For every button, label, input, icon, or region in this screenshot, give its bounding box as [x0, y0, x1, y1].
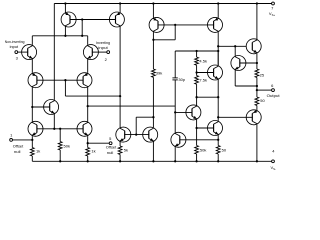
wire Q6 emitter down — [87, 136, 89, 147]
wire W drop down — [174, 25, 176, 40]
resistor R8 7.5k — [195, 76, 199, 85]
resistor R1 1k — [30, 148, 34, 157]
wire cap line top — [174, 51, 176, 78]
resistor R7 4.5k — [195, 57, 199, 65]
wire Q12 collector down to R5 — [152, 32, 154, 69]
junction V- rail x256.9 — [256, 160, 258, 162]
wire Q22 emitter to V- — [174, 147, 176, 161]
wire to Q17 base — [197, 127, 214, 129]
transistor Q17 (NPN gain) — [208, 121, 223, 136]
junction Q15 base sense — [256, 62, 258, 64]
wire Q16 emitter down — [196, 120, 198, 146]
junction Q10/Q11 base tie — [135, 133, 137, 135]
wire Q12 emitter to V+ — [152, 4, 154, 18]
junction node Y drop — [64, 79, 66, 81]
svg-text:7: 7 — [271, 5, 274, 10]
wire collector bus Q1-Q2 (node X) — [32, 35, 87, 37]
svg-text:30p: 30p — [178, 77, 185, 82]
svg-text:input: input — [98, 45, 108, 50]
wire Q14 emitter down — [256, 54, 258, 69]
junction N / Q16 base branch — [174, 111, 176, 113]
wire Q15 base to Q14 emitter — [239, 62, 257, 64]
resistor R11 25 — [255, 69, 259, 78]
wire Q8-Q9 base link — [70, 19, 116, 21]
wire Q17 emitter down — [217, 136, 219, 146]
junction output branch — [256, 89, 258, 91]
wire Q3 collector to Q5 collector (node M) — [31, 88, 33, 122]
junction pin1 on Q5 emitter — [31, 139, 33, 141]
junction node M Q7 base — [31, 106, 33, 108]
wire Q11 emitter to V- — [152, 141, 154, 161]
svg-text:VS-: VS- — [270, 165, 276, 171]
transistor Q5 (NPN mirror) — [28, 121, 43, 136]
junction V+ rail x120.1 — [119, 2, 121, 4]
junction V- rail x87.7 — [87, 160, 89, 162]
svg-text:2: 2 — [105, 57, 108, 62]
svg-text:50k: 50k — [200, 147, 206, 152]
wire V+ rail — [54, 3, 271, 5]
transistor Q4 (PNP) — [77, 73, 92, 88]
terminal pin 3 non-inverting input — [15, 51, 18, 54]
junction Q8 collector on bus — [64, 35, 66, 37]
wire Q13 collector down — [217, 32, 219, 65]
wire R3 bottom to V- — [59, 150, 61, 161]
terminal pin 5 offset null — [109, 142, 112, 145]
wire Q6 emitter to pin5 — [88, 142, 110, 144]
svg-text:1k: 1k — [91, 148, 95, 153]
junction W diode drop — [174, 24, 176, 26]
wire Q8 emitter to V+ — [64, 4, 66, 13]
wire W drop left to Q12 collector — [153, 39, 175, 41]
junction Q20 base branch — [217, 116, 219, 118]
resistor R4 5k — [118, 146, 122, 155]
transistor Q2 (NPN input) — [83, 45, 98, 60]
wire Q15 collector up to T — [234, 46, 236, 55]
transistor Q1 (NPN input) — [22, 45, 37, 60]
wire Q5-Q6 base link (node P) — [37, 128, 84, 130]
wire R5 bottom to Q11 collector — [152, 77, 154, 127]
junction U on Q18 emitter line — [217, 96, 219, 98]
svg-text:4.5k: 4.5k — [199, 59, 207, 64]
transistor Q20 (PNP output) — [246, 110, 261, 125]
wire base tie right to Q11 collector line — [136, 116, 153, 118]
transistor Q18 (VBE multiplier) — [208, 65, 223, 80]
wire Q22 base to Q17 emitter — [179, 139, 218, 141]
wire R11 bottom to output node — [256, 78, 258, 98]
svg-text:1k: 1k — [36, 148, 40, 153]
terminal pin 7 V+ — [272, 2, 275, 5]
capacitor C1 30p top plate — [172, 77, 177, 79]
wire R9 bottom — [196, 154, 198, 161]
wire Q1 collector up — [31, 36, 33, 45]
transistor Q15 (NPN current limit) — [231, 56, 246, 71]
svg-text:50: 50 — [260, 98, 265, 103]
svg-text:50: 50 — [222, 147, 227, 152]
junction base-tie on bus — [81, 35, 83, 37]
wire Q13 emitter to V+ — [217, 4, 219, 18]
junction Q16 emitter / Q17 base — [195, 127, 197, 129]
resistor R12 50 — [255, 97, 259, 106]
wire Q20 collector to V- — [256, 125, 258, 162]
transistor Q9 (PNP current mirror) — [109, 12, 124, 27]
resistor R3 50k — [58, 142, 62, 151]
junction V- rail x60.2 — [59, 160, 61, 162]
wire Q14 collector to V+ — [256, 4, 258, 40]
junction V- rail x120.1 — [119, 160, 121, 162]
wire Q12-Q13 base link (node W) — [158, 24, 214, 26]
svg-text:6: 6 — [271, 83, 274, 88]
junction node T on Q13 line — [217, 45, 219, 47]
resistor R10 50 — [216, 146, 220, 155]
svg-text:Output: Output — [267, 93, 281, 98]
junction Q17 emitter / Q22 base / R10 — [217, 139, 219, 141]
svg-text:4: 4 — [272, 149, 275, 154]
terminal pin 4 V- — [272, 160, 275, 163]
junction V+ rail x153.4 — [152, 2, 154, 4]
transistor Q7 (NPN mirror helper) — [44, 100, 59, 115]
wire node T right segment — [218, 45, 246, 47]
junction Q12 diode tie — [152, 39, 154, 41]
svg-text:VS+: VS+ — [269, 11, 276, 17]
wire Q10 emitter to R4 — [119, 141, 121, 146]
svg-text:3: 3 — [16, 56, 19, 61]
wire cap line bottom (node N) — [174, 80, 176, 132]
junction T / Q15 collector — [234, 45, 236, 47]
wire Q5 emitter down — [31, 136, 33, 147]
wire node Y down — [64, 80, 66, 96]
terminal pin 2 inverting input — [107, 51, 110, 54]
junction Q18 base tap — [195, 71, 197, 73]
wire U to Q20 base — [218, 116, 253, 118]
junction V- rail x175.2 — [174, 160, 176, 162]
wire Q7 emitter down to base rail P — [53, 115, 55, 129]
svg-text:null: null — [14, 149, 21, 154]
transistor Q22 (NPN clamp) — [171, 132, 186, 147]
junction V+ rail x65.4 — [64, 2, 66, 4]
wire Q18 collector up to T — [217, 51, 219, 65]
wire R7 to R8 — [196, 65, 198, 75]
junction Q8/Q9 base tie — [81, 18, 83, 20]
transistor Q12 (PNP diode mirror) — [149, 17, 164, 32]
junction V- rail x153.4 — [152, 160, 154, 162]
wire output branch — [257, 89, 272, 91]
wire R2 bottom — [87, 156, 89, 161]
wire node Y right to Q9 collector line — [65, 95, 120, 97]
wire Q7 base lead — [32, 106, 50, 108]
wire Q2 emitter to Q4 emitter — [87, 60, 89, 73]
terminal pin 6 output — [272, 89, 275, 92]
wire N to Q16 base — [175, 111, 192, 113]
svg-text:1: 1 — [10, 133, 13, 138]
wire node T left segment — [175, 50, 218, 52]
resistor R9 50k — [195, 146, 199, 155]
junction node T2 on Q13 line — [217, 50, 219, 52]
junction R3 top on P — [59, 128, 61, 130]
junction Z on Q11 collector line — [152, 116, 154, 118]
wire pin1 to Q5 emitter — [13, 139, 33, 141]
svg-text:39k: 39k — [156, 71, 162, 76]
wire Q9 collector down to Q10 — [119, 27, 121, 127]
wire base tie up — [135, 117, 137, 134]
wire R12 to Q20 emitter — [256, 106, 258, 110]
wire Q3-Q4 base link (node Y) — [37, 79, 84, 81]
wire V- rail — [32, 160, 271, 162]
wire tap to Q18 base — [197, 72, 214, 74]
junction Y / Q9 collector / Q10 collector — [119, 95, 121, 97]
junction V+ rail x256.9 — [256, 2, 258, 4]
junction V- rail x218.2 — [217, 160, 219, 162]
wire node N to capacitor line — [88, 105, 176, 107]
svg-text:null: null — [107, 150, 114, 155]
wire R3 top — [59, 129, 61, 142]
junction T / R7 chain top — [195, 50, 197, 52]
transistor Q10 (NPN Widlar) — [116, 127, 131, 142]
wire base tie down to collector bus — [81, 20, 83, 36]
junction pin5 on Q6 emitter — [87, 142, 89, 144]
transistor Q8 (PNP current mirror) — [61, 12, 76, 27]
transistor Q13 (PNP mirror) — [208, 17, 223, 32]
transistor Q14 (NPN output) — [246, 39, 261, 54]
wire pin3 to Q1 base — [18, 51, 28, 53]
transistor Q3 (PNP) — [28, 73, 43, 88]
wire R10 bottom — [217, 154, 219, 161]
wire Q2 collector up — [87, 36, 89, 45]
wire Q15 emitter to output node — [235, 85, 257, 87]
capacitor C1 30p bottom plate — [172, 79, 177, 81]
svg-text:input: input — [10, 44, 19, 49]
svg-text:Offset: Offset — [106, 145, 117, 150]
wire R1 bottom corner — [31, 156, 33, 161]
junction U on chain — [195, 96, 197, 98]
junction V- rail x196.6 — [195, 160, 197, 162]
resistor R2 1k — [86, 148, 90, 157]
svg-text:7.5k: 7.5k — [199, 78, 207, 83]
transistor Q11 (NPN diode) — [143, 127, 158, 142]
wire R4 bottom — [119, 155, 121, 162]
wire pin2 to Q2 base — [92, 51, 107, 53]
wire Q1 emitter to Q3 emitter — [31, 60, 33, 73]
wire Q15 emitter down — [234, 71, 236, 87]
svg-text:5: 5 — [109, 136, 112, 141]
transistor Q16 (NPN driver) — [186, 105, 201, 120]
svg-text:25: 25 — [260, 72, 265, 77]
wire U branch right — [197, 96, 219, 98]
transistor Q6 (NPN mirror) — [77, 121, 92, 136]
terminal pin 1 offset null — [10, 139, 13, 142]
wire Q4 collector to Q6 collector (node N top) — [87, 88, 89, 122]
wire Q10-Q11 base link — [124, 134, 149, 136]
wire Q9 emitter to V+ — [119, 4, 121, 13]
svg-text:50k: 50k — [64, 144, 70, 149]
wire chain T to R7 — [196, 51, 198, 57]
junction node N tap — [87, 105, 89, 107]
wire Q7 collector to V+ (left frame) — [53, 4, 55, 100]
junction output / Q15 emitter — [256, 85, 258, 87]
resistor R5 39k — [152, 69, 156, 77]
wire Q18 emitter down to Q17 collector — [217, 80, 219, 121]
wire R8 to node U / Q16 collector — [196, 84, 198, 106]
wire Q8 collector down — [64, 27, 66, 36]
junction V+ rail x218.2 — [217, 2, 219, 4]
svg-text:5k: 5k — [124, 148, 128, 153]
svg-text:Offset: Offset — [13, 144, 24, 149]
junction Q7 emitter on P — [53, 128, 55, 130]
